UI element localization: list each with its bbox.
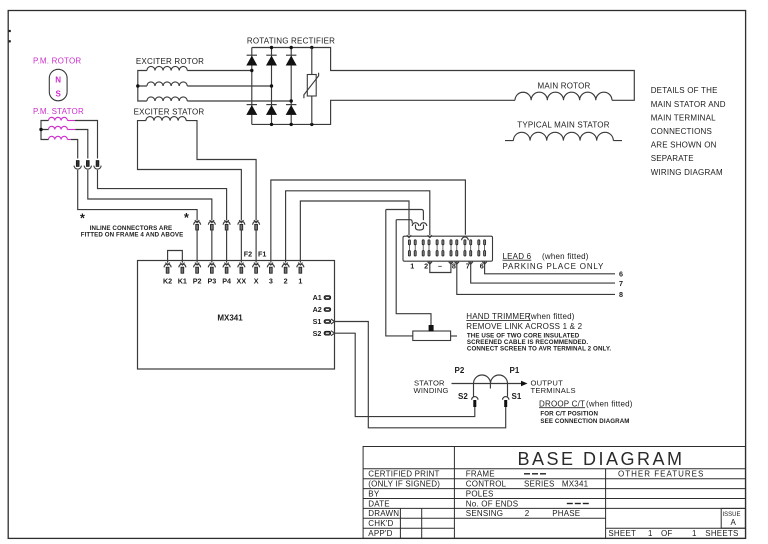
wire: trimmer wiper run	[396, 220, 431, 326]
droop CT winding	[474, 375, 508, 383]
wire: trimmer end run	[386, 210, 413, 336]
svg-text:P.M. STATOR: P.M. STATOR	[33, 107, 84, 116]
svg-text:DROOP C/T: DROOP C/T	[539, 399, 585, 408]
svg-text:N: N	[55, 76, 61, 85]
diode D5	[266, 104, 276, 106]
link pin2 to pin8L	[428, 262, 432, 264]
aux pin col 1	[408, 244, 410, 251]
svg-text:BY: BY	[368, 489, 380, 498]
svg-text:S2: S2	[458, 392, 468, 401]
junction exciter rotor star	[136, 84, 139, 87]
svg-text:7: 7	[619, 279, 623, 288]
aux pin col 4	[428, 244, 430, 251]
svg-text:CONNECTIONS: CONNECTIONS	[651, 127, 712, 136]
inline connector (P.M. lead 2)	[86, 161, 89, 167]
exciter rotor winding ph3	[147, 97, 187, 101]
svg-text:F2: F2	[244, 250, 252, 259]
svg-text:F1: F1	[258, 250, 266, 259]
svg-text:REMOVE LINK ACROSS 1 & 2: REMOVE LINK ACROSS 1 & 2	[466, 322, 582, 331]
wire: exciter rotor star bus	[138, 71, 147, 102]
wire: exciter stator F2 lead	[138, 121, 242, 221]
main stator winding	[513, 132, 613, 140]
svg-text:SENSING: SENSING	[466, 509, 503, 518]
aux pin col 3	[422, 244, 424, 251]
hook of lead 3 on aux pin	[462, 237, 469, 240]
rectifier negative bus	[252, 100, 515, 124]
svg-text:FITTED ON FRAME 4 AND ABO: FITTED ON FRAME 4 AND ABOVE	[81, 232, 184, 239]
svg-text:(when fitted): (when fitted)	[586, 399, 633, 408]
svg-text:(when fitted): (when fitted)	[542, 252, 589, 261]
svg-text:P2: P2	[193, 276, 202, 285]
wire into P2	[196, 230, 198, 263]
aux pin col 2	[414, 244, 416, 251]
diode D1	[247, 54, 257, 56]
svg-text:1: 1	[298, 276, 302, 285]
svg-text:1: 1	[648, 529, 653, 538]
svg-text:DATE: DATE	[368, 499, 390, 508]
svg-text:P4: P4	[222, 276, 231, 285]
svg-text:DRAWN: DRAWN	[368, 509, 399, 518]
wire: exciter rotor ph2 to rectifier	[187, 85, 271, 87]
wire: connector to P3 run	[88, 170, 212, 220]
junction on P.M. stator left bus	[39, 128, 42, 131]
svg-text:BASE DIAGRAM: BASE DIAGRAM	[517, 449, 684, 469]
diode D3	[286, 54, 296, 56]
P.M. stator winding L1	[49, 117, 68, 120]
lead 7	[469, 262, 473, 264]
svg-text:POLES: POLES	[466, 489, 494, 498]
AVR terminal P3	[210, 263, 214, 265]
exciter rotor winding ph2	[147, 82, 187, 86]
inline connector (P.M. lead 1)	[96, 161, 99, 167]
svg-text:DETAILS OF THE: DETAILS OF THE	[651, 86, 718, 95]
title block texts	[368, 470, 738, 538]
rectifier positive bus	[252, 48, 635, 101]
svg-text:MAIN STATOR AND: MAIN STATOR AND	[651, 100, 726, 109]
svg-text:1: 1	[410, 261, 414, 270]
svg-text:S1: S1	[512, 392, 522, 401]
CT S1 lead	[507, 384, 509, 397]
svg-text:LEAD 6: LEAD 6	[503, 252, 532, 261]
exciter stator winding	[146, 117, 186, 121]
AVR terminal P4	[224, 263, 228, 265]
svg-text:*: *	[80, 212, 85, 226]
svg-text:HAND TRIMMER: HAND TRIMMER	[466, 312, 530, 321]
dash entries	[524, 474, 589, 504]
aux pin col 8	[456, 244, 458, 251]
wire: P.M. stator lead 2 to connector	[76, 130, 88, 159]
svg-text:CHK'D: CHK'D	[368, 519, 393, 528]
lead 8	[455, 262, 459, 264]
diode D2	[266, 54, 276, 56]
wire: P.M. stator common left bus	[41, 121, 49, 140]
svg-text:ROTATING RECTIFIER: ROTATING RECTIFIER	[247, 37, 335, 46]
svg-text:MAIN ROTOR: MAIN ROTOR	[538, 81, 591, 90]
svg-text:A: A	[731, 518, 737, 527]
wire: exciter rotor ph3 to rectifier	[187, 100, 291, 102]
P.M. stator winding L2	[49, 126, 68, 129]
svg-text:FRAME: FRAME	[466, 470, 495, 479]
AVR terminal K1	[180, 263, 184, 265]
title block grid	[363, 447, 745, 539]
svg-text:A1: A1	[313, 293, 322, 302]
svg-text:–: –	[438, 261, 442, 270]
stator winding line with arrow	[452, 383, 522, 385]
lead 6	[482, 262, 486, 264]
svg-text:SEPARATE: SEPARATE	[651, 154, 694, 163]
svg-text:MAIN TERMINAL: MAIN TERMINAL	[651, 113, 716, 122]
svg-text:P3: P3	[207, 276, 216, 285]
svg-text:PHASE: PHASE	[552, 509, 580, 518]
K1-K2 link	[168, 251, 183, 263]
svg-text:2: 2	[284, 276, 288, 285]
inline connector (P3 lead)	[210, 220, 214, 222]
inline connector (P4 lead)	[224, 220, 228, 222]
svg-text:CONNECT SCREEN TO AVR TERMINAL: CONNECT SCREEN TO AVR TERMINAL 2 ONLY.	[467, 346, 611, 353]
AVR terminal 3	[269, 263, 273, 265]
AVR terminal 1	[298, 263, 302, 265]
svg-text:S2: S2	[313, 329, 322, 338]
wire: AVR 1 to aux pin 1	[300, 201, 409, 263]
svg-text:3: 3	[269, 276, 273, 285]
varistor V1 wire	[311, 48, 313, 125]
varistor V1	[307, 75, 316, 97]
main stator lead stubs	[505, 140, 622, 142]
AVR terminal XX	[239, 263, 243, 265]
aux pin col 7	[450, 244, 452, 251]
AVR terminal 2	[283, 263, 287, 265]
svg-text:K1: K1	[178, 276, 187, 285]
svg-text:CONTROL: CONTROL	[466, 480, 507, 489]
aux pin col 6	[442, 244, 444, 251]
svg-text:MX341: MX341	[562, 480, 589, 489]
trimmer hook on pin 1	[396, 220, 419, 230]
svg-text:FOR C/T POSITION: FOR C/T POSITION	[540, 410, 598, 417]
P.M. stator winding L3	[49, 136, 68, 139]
P.M. stator magenta lead stubs	[67, 120, 75, 122]
svg-text:1: 1	[692, 529, 697, 538]
P.M. rotor magnet N-S	[49, 69, 67, 101]
AVR terminal X	[254, 263, 258, 265]
rectifier leg 2	[271, 48, 273, 125]
svg-text:SHEET: SHEET	[608, 529, 636, 538]
svg-text:P.M. ROTOR: P.M. ROTOR	[33, 57, 81, 66]
svg-text:TYPICAL MAIN STATOR: TYPICAL MAIN STATOR	[517, 120, 609, 129]
svg-text:S: S	[56, 90, 62, 99]
svg-text:K2: K2	[163, 276, 172, 285]
svg-text:WIRING DIAGRAM: WIRING DIAGRAM	[651, 168, 723, 177]
wire: P.M. stator lead 3 to connector	[71, 140, 78, 159]
svg-text:(ONLY IF SIGNED): (ONLY IF SIGNED)	[368, 480, 440, 489]
inline connector (P.M. lead 3)	[76, 161, 79, 167]
rectifier leg 1	[251, 48, 253, 125]
svg-text:6: 6	[619, 270, 623, 279]
CT S2 lead	[473, 384, 475, 397]
wire: connector to P4 run	[98, 170, 227, 220]
wire: exciter stator F1 lead	[186, 121, 256, 221]
auxiliary terminal block	[403, 236, 493, 261]
inline connector (P2 lead)	[195, 220, 199, 222]
svg-text:SEE CONNECTION DIAGRAM: SEE CONNECTION DIAGRAM	[540, 418, 629, 425]
svg-text:WINDING: WINDING	[414, 386, 449, 395]
aux pin col 9	[464, 244, 466, 251]
wire into P4	[226, 230, 228, 263]
svg-text:CERTIFIED PRINT: CERTIFIED PRINT	[368, 470, 439, 479]
wire: exciter rotor ph1 to rectifier	[187, 70, 252, 72]
svg-text:EXCITER STATOR: EXCITER STATOR	[134, 107, 205, 116]
aux pin col 5	[436, 244, 438, 251]
diode D6	[286, 104, 296, 106]
wire: S2 to droop CT	[335, 333, 475, 416]
diode D4	[247, 104, 257, 106]
svg-text:X: X	[254, 276, 259, 285]
svg-text:MX341: MX341	[217, 314, 243, 323]
wire: AVR 3 to aux pin 7	[271, 180, 466, 263]
AVR terminal K2	[165, 263, 169, 265]
main rotor winding	[515, 92, 612, 100]
svg-text:ARE SHOWN ON: ARE SHOWN ON	[651, 141, 717, 150]
wire into X	[255, 230, 257, 263]
junction dots rectifier	[250, 69, 253, 72]
svg-text:2: 2	[424, 261, 428, 270]
svg-text:XX: XX	[237, 276, 247, 285]
exciter rotor winding ph1	[147, 66, 187, 70]
AVR MX341 box	[138, 261, 335, 370]
wire: connector to P2 run	[78, 170, 197, 220]
aux pin col 12	[484, 244, 486, 251]
svg-text:A2: A2	[313, 305, 322, 314]
inline connector (XX lead)	[239, 220, 243, 222]
svg-text:TERMINALS: TERMINALS	[531, 386, 576, 395]
svg-text:SERIES: SERIES	[524, 480, 555, 489]
svg-text:(when fitted): (when fitted)	[528, 312, 575, 321]
hand trimmer R1	[413, 331, 451, 341]
note: details of main stator	[651, 86, 726, 177]
svg-text:P1: P1	[510, 366, 520, 375]
svg-text:PARKING PLACE ONLY: PARKING PLACE ONLY	[503, 262, 605, 271]
aux pin col 11	[478, 244, 480, 251]
aux pin col 10	[470, 244, 472, 251]
svg-text:8: 8	[619, 290, 623, 299]
svg-text:APP'D: APP'D	[368, 529, 392, 538]
AVR terminal P2	[195, 263, 199, 265]
svg-text:No. OF ENDS: No. OF ENDS	[466, 499, 518, 508]
wire: AVR 2 to aux pin 2	[286, 191, 430, 263]
inline connector (X lead)	[254, 220, 258, 222]
rectifier leg 3	[290, 48, 292, 125]
svg-text:P2: P2	[455, 366, 465, 375]
svg-text:SHEETS: SHEETS	[705, 529, 738, 538]
svg-text:S1: S1	[313, 317, 322, 326]
svg-text:OTHER FEATURES: OTHER FEATURES	[618, 470, 704, 479]
svg-text:2: 2	[525, 509, 530, 518]
trimmer hook on pin 2	[386, 210, 427, 231]
wire into P3	[211, 230, 213, 263]
svg-text:*: *	[184, 211, 189, 225]
svg-text:OF: OF	[661, 529, 673, 538]
wire: S1 to droop CT	[335, 322, 506, 428]
wire: P.M. stator lead 1 to connector	[75, 121, 98, 159]
svg-text:EXCITER ROTOR: EXCITER ROTOR	[136, 57, 204, 66]
wire into XX	[240, 230, 242, 263]
